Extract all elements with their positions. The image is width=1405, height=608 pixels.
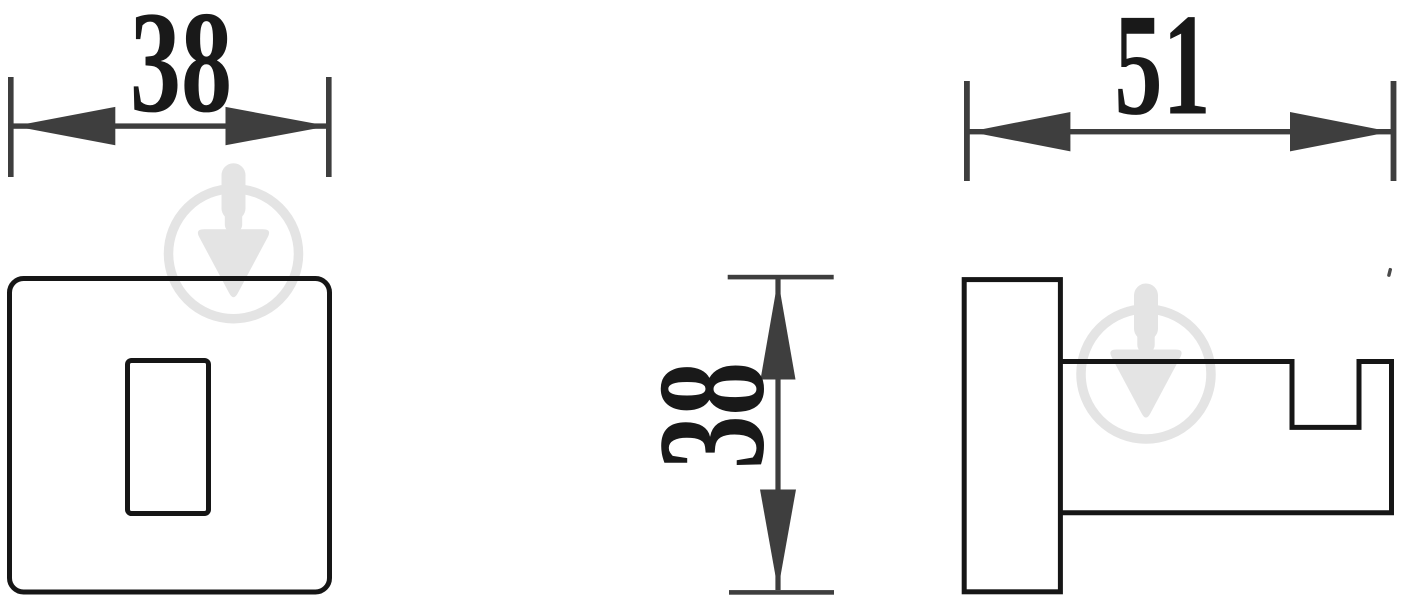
side view wall plate (rectangle) — [964, 280, 1060, 592]
watermark logo left (ring) — [169, 163, 299, 319]
dimension 38 top: right arrowhead — [226, 107, 329, 145]
watermark logo right (ring) — [1081, 284, 1211, 440]
side view hook arm profile — [1060, 362, 1392, 513]
dimension 38 vertical: dimension line — [775, 279, 780, 590]
stray scan artifact mark — [1387, 268, 1392, 278]
dimension 51 top: left arrowhead — [970, 112, 1071, 151]
dimension 38 top: left arrowhead — [14, 107, 115, 145]
dimension 51 top: dimension line — [969, 129, 1391, 134]
dimension 38 vertical: top arrowhead — [761, 280, 796, 380]
dimension 38 top: dimension line — [13, 123, 327, 128]
dimension 51 top: right extension tick — [1391, 81, 1397, 181]
dimension 38 vertical: bottom arrowhead — [760, 490, 796, 591]
svg-text:51: 51 — [1114, 0, 1210, 145]
dimension 51 top: right arrowhead — [1290, 112, 1391, 151]
dimension 38 vertical: bottom extension tick — [729, 590, 834, 595]
front view slot cutout — [128, 361, 209, 514]
svg-text:38: 38 — [130, 0, 232, 143]
dimension 38 vertical: top extension tick — [728, 275, 834, 280]
front view wall plate outline — [10, 279, 330, 593]
dimension 51 top: left extension tick — [964, 81, 970, 181]
dimension 38 top: left extension tick — [8, 77, 14, 177]
svg-text:38: 38 — [626, 362, 796, 469]
dimension 38 top: right extension tick — [326, 77, 332, 177]
